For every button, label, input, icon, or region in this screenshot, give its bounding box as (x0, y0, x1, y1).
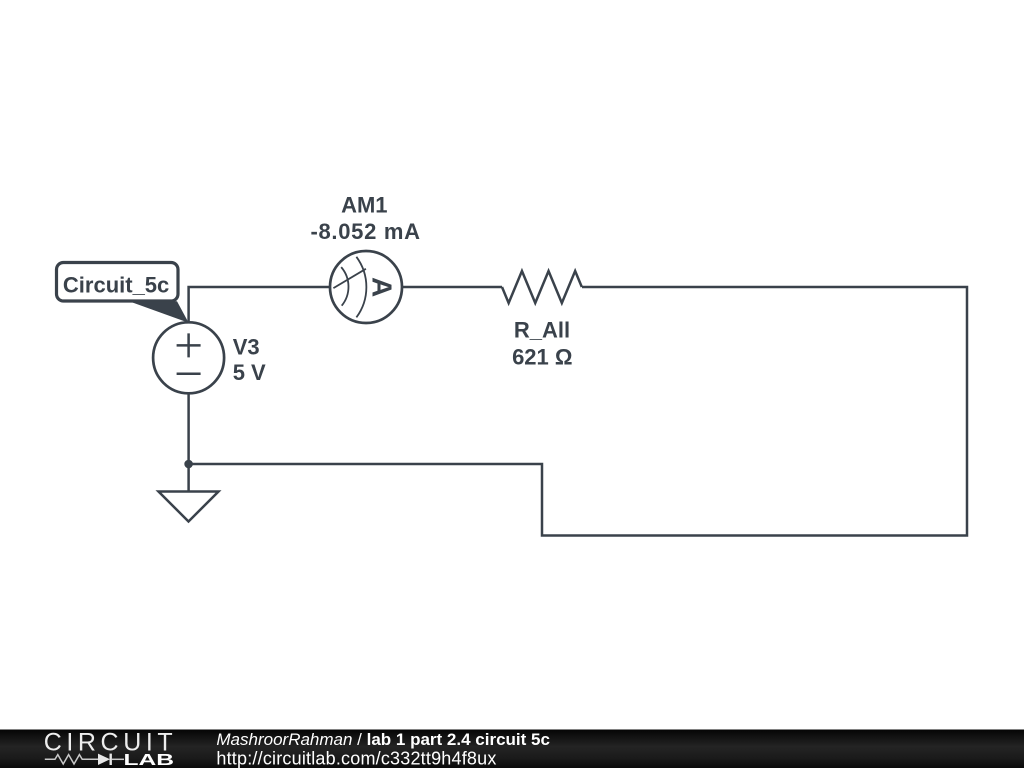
svg-text:LAB: LAB (124, 752, 175, 768)
svg-text:V3: V3 (233, 335, 260, 360)
node junction dot (184, 460, 193, 469)
svg-text:A: A (367, 277, 398, 297)
ammeter AM1 circle (330, 251, 402, 323)
node label bubble Circuit_5c (57, 263, 179, 302)
logo diode (98, 754, 110, 765)
svg-text:5 V: 5 V (233, 360, 266, 385)
wire from label corner to V3 top and right to ammeter/resistor (189, 287, 502, 323)
wire from resistor right around the loop bottom (189, 287, 967, 536)
ammeter scale arc large (356, 257, 366, 318)
svg-text:MashroorRahman / lab 1 part 2.: MashroorRahman / lab 1 part 2.4 circuit … (216, 730, 550, 749)
plus sign (177, 333, 201, 357)
svg-text:Circuit_5c: Circuit_5c (63, 272, 169, 297)
footer bar (0, 730, 1024, 768)
ammeter needle (333, 269, 366, 288)
wire V3 bottom to ground (187, 393, 190, 492)
svg-text:AM1: AM1 (341, 193, 387, 218)
bubble tail (129, 301, 189, 323)
svg-text:http://circuitlab.com/c332tt9h: http://circuitlab.com/c332tt9h4f8ux (216, 749, 496, 768)
svg-text:621 Ω: 621 Ω (512, 344, 572, 369)
ground (159, 492, 219, 522)
ammeter scale arc small (341, 267, 348, 306)
voltage source V3 circle (153, 322, 224, 393)
logo resistor squiggle (45, 755, 98, 764)
svg-text:R_All: R_All (514, 317, 570, 342)
svg-text:-8.052 mA: -8.052 mA (310, 219, 420, 244)
minus sign (177, 373, 201, 376)
resistor R_All (502, 271, 582, 303)
